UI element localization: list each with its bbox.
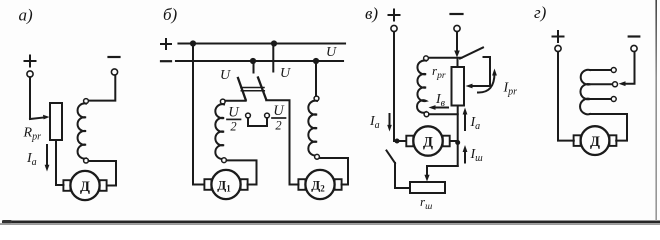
switch left blade — [238, 78, 246, 100]
switch stub from minus bus — [253, 61, 255, 73]
label D fig g — [590, 134, 600, 150]
motor D fig v — [406, 126, 449, 155]
label U/2 left — [228, 104, 240, 133]
arrowhead tap selector left — [619, 81, 626, 86]
arrow Ia down — [45, 145, 50, 172]
arrowhead wiper down into rsh — [424, 175, 429, 182]
junction dot plus bus left — [190, 40, 196, 46]
resistor Rpr — [50, 103, 62, 140]
wire coil2 bottom to D2 right brush — [320, 158, 349, 185]
inner contact left — [246, 113, 251, 118]
fraction bar left — [227, 118, 241, 120]
switch linkage bar — [241, 88, 264, 91]
field coil fig a — [78, 103, 86, 158]
wire wiper feed — [427, 166, 458, 177]
label D fig a — [80, 179, 90, 195]
tap contact bottom — [611, 97, 616, 102]
label D1 — [217, 178, 231, 194]
svg-text:U: U — [228, 104, 240, 120]
coil bottom node circle — [84, 158, 89, 163]
tap wire top — [590, 69, 611, 71]
field coil1 — [215, 104, 224, 159]
svg-text:Д2: Д2 — [311, 178, 325, 194]
svg-text:2: 2 — [275, 118, 281, 132]
right page border — [655, 0, 657, 221]
wire resistor bottom to motor left brush — [56, 140, 64, 185]
minus sign fig b — [161, 60, 171, 62]
svg-text:U: U — [220, 68, 231, 83]
motor D2 — [298, 170, 341, 199]
svg-text:Д1: Д1 — [217, 178, 231, 194]
svg-text:U: U — [280, 66, 291, 81]
switch right blade — [258, 78, 266, 100]
figure label g) — [534, 3, 547, 22]
junction dot plus bus right — [271, 40, 277, 46]
junction dot minus bus right — [313, 58, 319, 64]
svg-text:б): б) — [163, 5, 178, 24]
label rpr — [432, 63, 446, 81]
field coil2 — [308, 101, 317, 156]
plus terminal fig v — [389, 10, 400, 32]
motor D fig g — [574, 126, 617, 155]
svg-text:Iв: Iв — [435, 92, 446, 109]
arrowhead down at top node — [454, 51, 460, 58]
svg-text:а): а) — [19, 6, 34, 25]
arrow Ia right up — [463, 108, 468, 131]
tap wire middle — [590, 83, 613, 85]
label Rpr — [23, 126, 42, 143]
wire coil1 bottom to D1 right brush — [227, 160, 257, 184]
label rsh — [420, 194, 432, 212]
coil top node circle fig v — [424, 56, 429, 61]
label D2 — [311, 178, 325, 194]
svg-text:Д: Д — [423, 134, 433, 150]
bracket wiper connection — [470, 57, 490, 86]
plus sign fig b — [161, 39, 171, 49]
motor D fig a — [63, 171, 106, 200]
label U right end of buses — [326, 45, 337, 60]
coil bottom node circle fig v — [424, 112, 429, 117]
wire plus down to motor left brush — [394, 32, 406, 141]
wire coil bottom to right bus — [429, 113, 458, 115]
arrow Iv left — [429, 105, 449, 110]
svg-text:Ipr: Ipr — [503, 81, 518, 98]
minus terminal fig g — [629, 37, 640, 52]
minus bus — [176, 60, 343, 62]
label Ipr — [503, 81, 518, 98]
plus terminal fig g — [553, 31, 564, 52]
svg-text:Ia: Ia — [369, 114, 380, 131]
wiper arrow into resistor Rpr — [30, 115, 50, 120]
junction dot minus bus left — [250, 58, 256, 64]
field coil fig v — [417, 60, 426, 112]
label U right of switch — [280, 66, 291, 81]
motor D1 — [204, 170, 247, 199]
Ipr curved arrow — [478, 69, 497, 93]
rheostat rsh — [410, 182, 445, 193]
minus terminal fig a — [109, 57, 120, 75]
svg-text:г): г) — [534, 3, 547, 22]
wire plus down to motor left brush — [558, 52, 574, 141]
bottom rule left end blob — [2, 220, 12, 223]
label U/2 right — [273, 103, 285, 133]
coil2 top node circle — [314, 96, 319, 101]
label D fig v — [423, 134, 433, 150]
svg-text:Д: Д — [80, 179, 90, 195]
tap contact top — [611, 68, 616, 73]
coil top node circle — [84, 99, 89, 104]
svg-text:2: 2 — [230, 120, 236, 134]
wire blade to rsh left lead — [395, 163, 410, 188]
coil1 top node circle — [220, 99, 225, 104]
plus terminal fig a — [25, 56, 36, 78]
wire right brush to vertical — [450, 140, 458, 142]
label U left of switch — [220, 68, 231, 83]
svg-text:Ia: Ia — [26, 151, 37, 168]
junction dot at left brush — [395, 139, 400, 144]
svg-text:rш: rш — [420, 194, 432, 212]
wire winding bottom to motor right brush — [590, 114, 627, 141]
right vertical wire rpr bottom down — [457, 106, 459, 167]
wire minus down — [456, 32, 458, 51]
figure label b) — [163, 5, 178, 24]
arrow Ish up — [463, 145, 468, 163]
svg-text:Ia: Ia — [470, 115, 481, 132]
figure label a) — [19, 6, 34, 25]
label Ia with down arrow — [26, 151, 37, 168]
switch blade top right — [460, 48, 483, 59]
wire plus bus down to motor D1 — [193, 44, 204, 185]
fraction bar right — [272, 117, 286, 119]
arrowhead into rpr — [466, 84, 473, 89]
gray band below rule — [0, 223, 660, 225]
rheostat rpr — [452, 67, 465, 106]
wire right blade to motor D2 left brush — [266, 100, 298, 184]
label Iv with left arrow — [435, 92, 446, 109]
label Ia left with down arrow — [369, 114, 380, 131]
plus bus — [179, 42, 346, 44]
label Ish — [470, 147, 484, 164]
coil2 bottom node circle — [315, 154, 320, 159]
figure label v) — [365, 4, 378, 23]
svg-text:в): в) — [365, 4, 378, 23]
top node wire — [429, 57, 462, 59]
tap wire bottom — [590, 98, 611, 100]
minus terminal fig v — [451, 14, 463, 32]
bottom rule — [2, 221, 660, 224]
wire coil1 top to left blade — [225, 100, 245, 102]
svg-text:U: U — [273, 103, 285, 119]
wire minus bus down to coil2 — [315, 61, 317, 96]
svg-text:U: U — [326, 45, 337, 60]
junction dot right brush — [455, 140, 460, 145]
contact link U shape — [248, 118, 267, 126]
tap contact middle — [613, 82, 618, 87]
switch stub from plus bus — [272, 44, 274, 72]
svg-text:Rpr: Rpr — [23, 126, 42, 143]
lead minus node to rpr top — [457, 58, 459, 67]
wire minus down to tap arrow — [623, 52, 635, 84]
svg-text:rpr: rpr — [432, 63, 446, 81]
wire from plus down to rheostat arrow — [29, 77, 31, 119]
wire coil bottom to motor right brush — [89, 161, 117, 186]
wire minus down to coil top — [88, 75, 115, 100]
svg-text:Iш: Iш — [470, 147, 484, 164]
coil1 bottom node circle — [222, 158, 227, 163]
inner contact right — [265, 113, 270, 118]
tapped field winding fig g — [580, 70, 590, 115]
switch blade lower left open — [387, 151, 396, 164]
svg-text:Д: Д — [590, 134, 600, 150]
arrow Ia down — [387, 114, 392, 132]
label Ia right — [470, 115, 481, 132]
